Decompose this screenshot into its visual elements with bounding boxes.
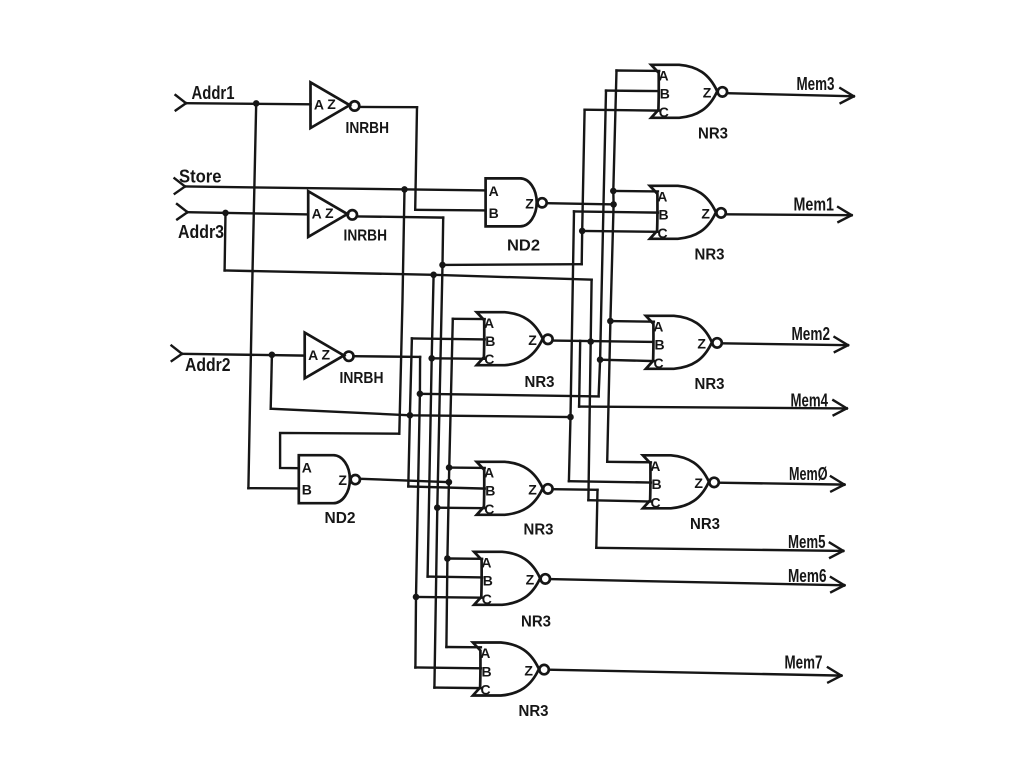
svg-text:Mem2: Mem2	[792, 324, 831, 344]
wire nAddr2 into U12 pin C	[416, 596, 482, 599]
output arrow Mem2	[835, 337, 849, 352]
node N2 to A of U11	[446, 465, 452, 471]
wire U13 output Mem7	[549, 670, 842, 676]
node Addr2 junction	[269, 352, 275, 358]
svg-text:Z: Z	[697, 336, 706, 352]
output arrow Mem1	[838, 207, 852, 222]
svg-text:Addr2: Addr2	[185, 355, 231, 375]
svg-text:B: B	[485, 333, 495, 349]
node Addr1 junction	[253, 101, 259, 107]
svg-text:B: B	[302, 482, 312, 498]
wire Mem4 drop	[579, 341, 580, 407]
NAND U4 ND2 (Store, nAddr1)	[486, 178, 547, 226]
NOR U8 NR3 (Mem2)	[646, 316, 722, 371]
svg-text:NR3: NR3	[695, 247, 725, 264]
label Mem1	[794, 195, 835, 215]
wire U12 output Mem6	[550, 579, 844, 585]
wire U1 output to corner	[359, 106, 417, 109]
wire Addr3 branch V3 down	[428, 275, 434, 577]
node N1 to A of U8	[608, 318, 614, 324]
label NR3 U8	[695, 376, 725, 393]
wire Addr2 to inverter U3	[182, 354, 305, 356]
wire N1 into U9 pin A	[607, 461, 651, 464]
wire U8 output Mem2	[722, 343, 848, 345]
wire Mem5 line	[596, 548, 843, 551]
node N2 to A of U12	[445, 556, 451, 562]
wire nAddr3 across to V8	[443, 263, 582, 266]
svg-text:B: B	[483, 573, 493, 589]
svg-text:NR3: NR3	[698, 125, 728, 142]
wire Addr3 branch down	[223, 213, 226, 271]
wire Store branch down	[399, 189, 404, 433]
wire nAddr2 into U8 pin C	[600, 360, 654, 361]
input arrow Store	[175, 178, 186, 193]
wire Addr2 V1 vertical	[408, 338, 412, 486]
node Addr3 to B of U8	[588, 339, 594, 345]
label Addr3	[178, 222, 224, 242]
wire into U5 pin B	[248, 487, 298, 490]
svg-text:INRBH: INRBH	[346, 120, 390, 137]
svg-text:ND2: ND2	[507, 238, 540, 255]
output arrow Mem7	[828, 667, 842, 682]
svg-text:B: B	[482, 663, 492, 679]
wire Store to ND2 U4 pin A	[185, 187, 486, 191]
label Mem2	[792, 324, 831, 344]
node N1 to A of U7	[611, 188, 617, 194]
wire nAddr3 into U13 pin C	[434, 686, 481, 689]
wire U10 output to Mem4	[553, 341, 653, 342]
node nAddr2 to C of U12	[413, 594, 419, 600]
label Mem0	[789, 464, 828, 484]
svg-text:NR3: NR3	[525, 374, 555, 391]
input arrow Addr2	[172, 346, 183, 361]
svg-text:MemØ: MemØ	[789, 464, 828, 484]
wire nAddr2 into U6 pin B	[606, 89, 659, 92]
svg-text:Z: Z	[701, 206, 710, 222]
inverter U1 INRBH (Addr1)	[311, 82, 360, 128]
wire U3 output	[353, 355, 420, 358]
wire U7 output Mem1	[726, 213, 852, 216]
node nAddr3 branch right	[440, 262, 446, 268]
label Addr1	[192, 83, 235, 103]
node nAddr2 branch right	[417, 391, 423, 397]
output arrow Mem6	[831, 577, 845, 592]
svg-text:C: C	[654, 355, 664, 371]
svg-text:NR3: NR3	[695, 376, 725, 393]
svg-text:Z: Z	[322, 346, 331, 362]
svg-text:INRBH: INRBH	[340, 370, 384, 387]
wire Mem5 drop	[596, 490, 597, 548]
input arrow Addr3	[177, 204, 188, 219]
svg-text:Mem6: Mem6	[788, 566, 827, 586]
svg-text:Addr1: Addr1	[192, 83, 235, 103]
svg-text:Z: Z	[526, 572, 535, 588]
label INRBH U2	[344, 228, 388, 245]
wire Addr3 into U10 pin C	[432, 357, 485, 360]
wire nAddr2 down V2	[415, 357, 420, 668]
wire Addr2 across	[271, 409, 571, 417]
label Addr2	[185, 355, 231, 375]
label Store	[179, 166, 222, 186]
wire Addr2 into U7 pin B	[574, 211, 658, 212]
label NR3 U6	[698, 125, 728, 142]
svg-text:Z: Z	[703, 85, 712, 101]
wire Addr1 branch down to U5 pin B	[248, 103, 256, 488]
label Mem3	[797, 74, 835, 94]
wire nAddr3 into U6 pin C	[585, 108, 660, 111]
label NR3 U13	[519, 703, 549, 720]
label ND2 U5	[325, 510, 356, 527]
wire U6 output Mem3	[727, 93, 854, 96]
NOR U12 NR3 (G3 drives Mem6)	[474, 552, 550, 607]
svg-text:B: B	[489, 205, 499, 221]
svg-text:Z: Z	[524, 662, 533, 678]
wire U5 output	[361, 479, 449, 482]
output arrow Mem3	[840, 88, 854, 103]
wire N1 vertical	[607, 71, 616, 462]
label INRBH U1	[346, 120, 390, 137]
svg-text:Z: Z	[528, 332, 537, 348]
node Store junction	[402, 187, 408, 193]
svg-text:Mem1: Mem1	[794, 195, 835, 215]
wire N2 into U12 pin A	[447, 557, 482, 560]
svg-text:A: A	[481, 554, 491, 570]
wire Addr3 across	[225, 271, 592, 280]
svg-text:A: A	[312, 206, 322, 222]
wire U4 output	[547, 203, 614, 204]
node Addr3 junction	[223, 210, 229, 216]
NOR U11 NR3 (G2 drives Mem5)	[477, 462, 553, 517]
wire N2 into U13 pin A	[446, 646, 481, 649]
label Mem6	[788, 566, 827, 586]
svg-text:A: A	[308, 347, 318, 363]
svg-text:Store: Store	[179, 166, 222, 186]
svg-text:NR3: NR3	[690, 516, 720, 533]
svg-text:Z: Z	[525, 195, 534, 211]
svg-text:Z: Z	[694, 475, 703, 491]
wire N2 into U11 pin A	[449, 466, 485, 469]
node Addr3 to C of U10	[429, 356, 435, 362]
inverter U3 INRBH (Addr2)	[305, 333, 354, 379]
label NR3 U11	[524, 522, 554, 539]
wire nAddr1 down	[415, 107, 417, 210]
wire U2 output	[357, 216, 443, 217]
NAND U5 ND2 (Store, Addr1)	[299, 455, 360, 503]
label ND2 U4	[507, 238, 540, 255]
wire nAddr2 across	[420, 394, 599, 397]
svg-text:Mem4: Mem4	[791, 391, 829, 411]
svg-text:Z: Z	[338, 472, 347, 488]
node nAddr2 to C of U8	[597, 357, 603, 363]
svg-text:A: A	[314, 97, 324, 113]
NOR U9 NR3 (Mem0)	[643, 455, 719, 510]
label NR3 U7	[695, 247, 725, 264]
wire nAddr2 into U13 pin B	[415, 666, 481, 669]
svg-text:Mem3: Mem3	[797, 74, 835, 94]
label NR3 U10	[525, 374, 555, 391]
node N1 join	[611, 202, 617, 208]
wire Addr1 to inverter U1	[186, 103, 311, 104]
svg-text:NR3: NR3	[521, 614, 551, 631]
svg-text:ND2: ND2	[325, 510, 356, 527]
svg-text:A: A	[484, 315, 494, 331]
NOR U10 NR3 (G1 drives Mem4)	[477, 312, 553, 367]
NOR U13 NR3 (G4 drives Mem7)	[473, 643, 549, 698]
NOR U6 NR3 (Mem3)	[651, 65, 727, 120]
wire Store to U5 pin A leg	[280, 433, 399, 468]
wire Addr2 into U11 pin B	[408, 487, 484, 489]
wire Addr3 to inverter U2	[188, 212, 309, 214]
label Mem7	[785, 653, 823, 673]
wire N1 into U7 pin A	[613, 190, 658, 193]
wire Addr2 branch down	[271, 355, 272, 409]
input arrow Addr1	[176, 95, 187, 110]
svg-text:A: A	[489, 183, 499, 199]
wire nAddr3 up V8	[582, 110, 585, 265]
label INRBH U3	[340, 370, 384, 387]
wire Addr3 right branch down	[588, 280, 591, 501]
node nAddr3 to C of U11	[435, 505, 441, 511]
output arrow Mem5	[830, 543, 844, 558]
svg-text:INRBH: INRBH	[344, 228, 388, 245]
wire nAddr2 up V9	[599, 91, 606, 397]
svg-text:NR3: NR3	[519, 703, 549, 720]
node Addr3 tap V3	[431, 272, 437, 278]
svg-text:NR3: NR3	[524, 522, 554, 539]
node Addr2 joins V6	[568, 414, 574, 420]
svg-text:B: B	[655, 337, 665, 353]
svg-text:Mem5: Mem5	[788, 532, 826, 552]
wire N2 vertical V5	[446, 319, 452, 647]
label NR3 U9	[690, 516, 720, 533]
node N2 join	[446, 479, 452, 485]
svg-text:Addr3: Addr3	[178, 222, 224, 242]
wire Addr3 into U12 pin B	[428, 575, 483, 578]
wire Addr3 into U9 pin C	[588, 500, 651, 501]
svg-text:A: A	[302, 460, 312, 476]
node Addr2 tap V1	[407, 413, 413, 419]
svg-text:B: B	[660, 86, 670, 102]
svg-text:Mem7: Mem7	[785, 653, 823, 673]
svg-text:B: B	[485, 483, 495, 499]
inverter U2 INRBH (Addr3)	[308, 191, 357, 237]
wire Addr2 into U9 pin B	[569, 481, 651, 482]
wire nAddr3 down V4	[434, 218, 443, 688]
wire Addr2 into U10 pin B	[412, 338, 485, 339]
output arrow Mem4	[833, 400, 847, 415]
label Mem4	[791, 391, 829, 411]
wire U9 output Mem0	[719, 483, 845, 485]
wire Addr2 V6 vertical	[569, 211, 574, 481]
svg-text:Z: Z	[325, 205, 334, 221]
label NR3 U12	[521, 614, 551, 631]
wire U11 output	[553, 488, 598, 491]
wire N1 into U6 pin A	[617, 69, 660, 72]
label Mem5	[788, 532, 826, 552]
wire nAddr3 into U11 pin C	[437, 507, 484, 510]
svg-text:Z: Z	[528, 482, 537, 498]
wire nAddr1 to U4 pin B	[415, 209, 485, 212]
output arrow Mem0	[831, 476, 845, 491]
wire Mem4 line	[579, 407, 847, 409]
svg-text:A: A	[650, 458, 660, 474]
svg-text:C: C	[481, 682, 491, 698]
NOR U7 NR3 (Mem1)	[650, 186, 726, 241]
svg-text:B: B	[659, 207, 669, 223]
svg-text:B: B	[652, 476, 662, 492]
svg-text:Z: Z	[327, 96, 336, 112]
node nAddr3 to C of U7	[579, 228, 585, 234]
wire nAddr3 into U7 pin C	[582, 230, 658, 233]
wire N2 into U10 pin A	[453, 318, 485, 321]
wire N1 into U8 pin A	[610, 320, 654, 323]
